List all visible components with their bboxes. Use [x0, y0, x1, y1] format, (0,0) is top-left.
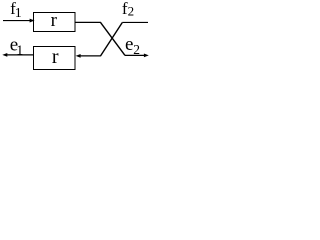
resistor box R top — [34, 13, 76, 32]
wire e1 with arrow out of bottom box — [2, 53, 33, 57]
diagonal wire B (f2 to bottom box) — [100, 22, 122, 56]
label e2 — [125, 34, 140, 57]
label f1 — [10, 0, 22, 21]
svg-text:2: 2 — [128, 3, 135, 18]
label f2 — [122, 0, 134, 18]
diagonal wire A (top box to e2) — [101, 22, 126, 55]
svg-text:2: 2 — [133, 42, 140, 57]
resistor box R bottom — [34, 47, 76, 70]
wire f1 arrow into top box — [3, 19, 35, 23]
wire into bottom box with arrow — [76, 54, 101, 58]
wire out of top box — [75, 21, 101, 23]
svg-text:r: r — [51, 10, 58, 31]
label e1 — [10, 34, 24, 58]
svg-text:1: 1 — [16, 43, 23, 58]
svg-text:r: r — [52, 46, 59, 68]
wire under f2 — [122, 21, 148, 23]
svg-text:e: e — [125, 34, 133, 55]
svg-text:1: 1 — [15, 6, 22, 21]
wire e2 with arrow — [125, 54, 149, 58]
